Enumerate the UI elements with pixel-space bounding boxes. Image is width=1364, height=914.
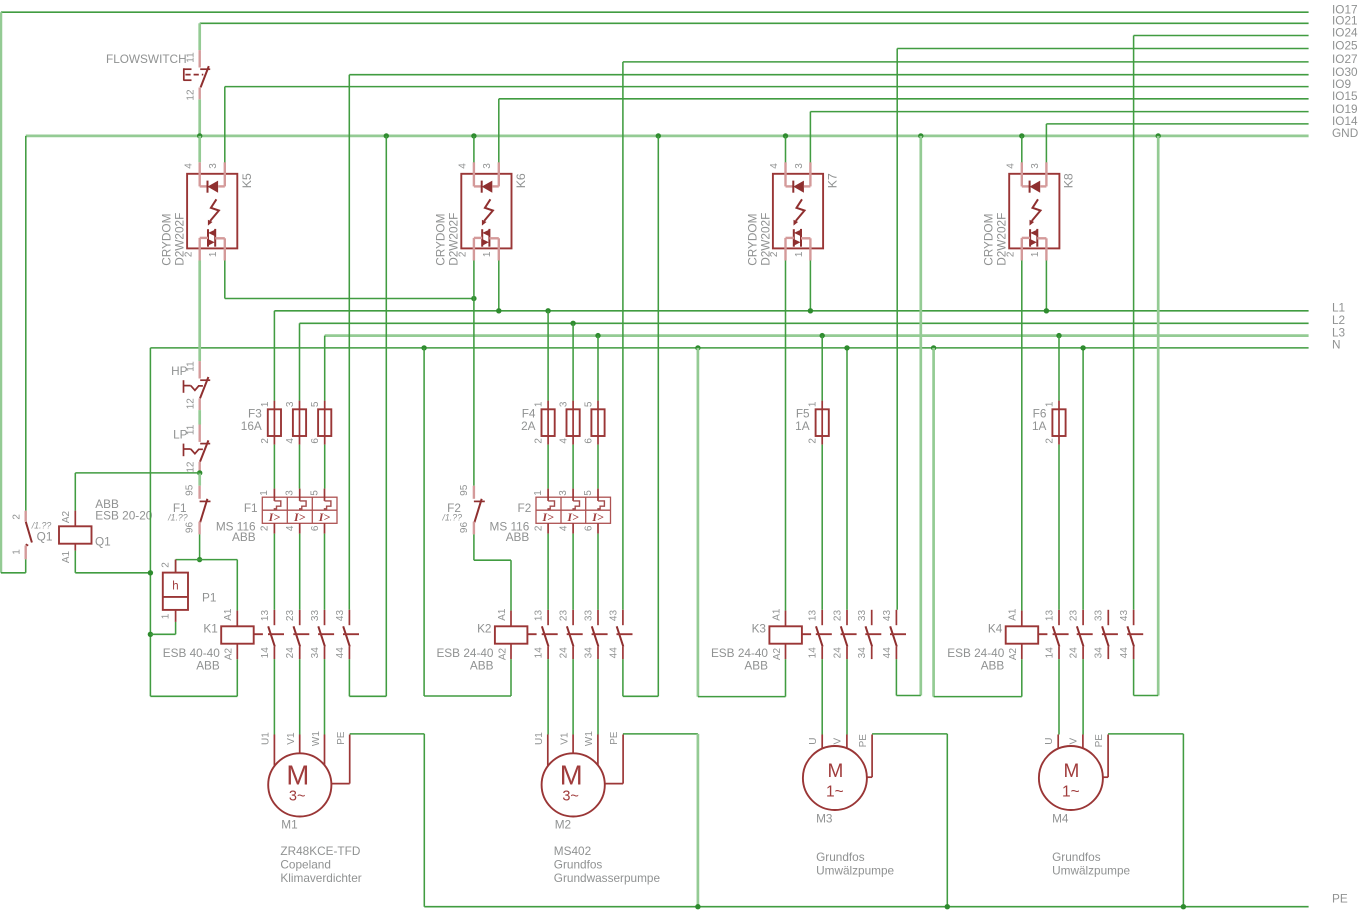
svg-text:HP: HP xyxy=(171,364,188,378)
svg-text:F1: F1 xyxy=(244,501,258,515)
svg-text:U: U xyxy=(808,738,819,745)
pin PE of M3 xyxy=(871,735,873,778)
pin A1 of Q1 xyxy=(74,544,76,551)
svg-text:6: 6 xyxy=(310,525,321,531)
svg-text:44: 44 xyxy=(335,647,346,659)
solid-state relay K8 CRYDOM D2W202F xyxy=(982,162,1076,265)
pin 95 of F2 xyxy=(473,486,475,499)
svg-text:A1: A1 xyxy=(771,608,782,621)
contact 33-34 of K2 xyxy=(583,610,607,660)
svg-text:13: 13 xyxy=(808,610,819,622)
svg-text:M: M xyxy=(827,761,843,782)
triac inside K7 xyxy=(793,229,795,247)
pin 44 of K4 xyxy=(1133,647,1135,660)
svg-text:A1: A1 xyxy=(1008,608,1019,621)
wire breaker to contactor contact xyxy=(597,534,599,610)
pin 12 of FLOWSWITCH xyxy=(198,88,200,100)
pin 24 of K2 xyxy=(572,647,574,660)
pin 3 xyxy=(299,401,301,410)
svg-text:CRYDOM: CRYDOM xyxy=(160,214,174,266)
svg-text:5: 5 xyxy=(584,401,595,407)
svg-text:Umwälzpumpe: Umwälzpumpe xyxy=(816,864,894,878)
fuse F4 pole 5-6 xyxy=(584,401,605,445)
contact arm 13-14 of K3 xyxy=(816,626,823,646)
wire GND to K5 pin4 xyxy=(198,136,201,162)
wire K7 pin1 to L1 xyxy=(809,261,811,311)
contact arm 23-24 of K4 xyxy=(1077,626,1084,646)
wire K7 pin2 down to K3 coil A1 xyxy=(785,261,787,611)
wire breaker to contactor contact xyxy=(299,534,301,610)
wire M2 PE elbow xyxy=(623,733,698,735)
svg-text:1~: 1~ xyxy=(826,783,844,800)
svg-text:16A: 16A xyxy=(241,419,262,433)
wire M1 PE riser xyxy=(423,734,425,907)
wire N drop for K2 coil xyxy=(423,348,425,696)
wire Q1 A2 up xyxy=(74,473,76,511)
fuse F4 pole 1-2 xyxy=(534,401,555,445)
svg-text:2: 2 xyxy=(12,514,23,520)
svg-text:5: 5 xyxy=(310,401,321,407)
svg-text:Grundfos: Grundfos xyxy=(1052,850,1101,864)
svg-text:IO24: IO24 xyxy=(1332,26,1358,40)
svg-text:K5: K5 xyxy=(240,173,254,188)
wire net L1 xyxy=(274,310,1308,312)
wire flowswitch pin12 to GND xyxy=(198,99,201,136)
pin 11 of FLOWSWITCH xyxy=(198,50,200,67)
contact arm 33-34 of K2 xyxy=(592,626,599,646)
contact arm 23-24 of K2 xyxy=(567,626,574,646)
contact arm of F2 xyxy=(474,500,485,502)
svg-text:PE: PE xyxy=(609,731,620,745)
pin 2 of K7 xyxy=(786,237,794,239)
contact 33-34 of K4 xyxy=(1094,610,1118,660)
pin A2 of K4 xyxy=(1021,644,1023,660)
pin 24 of K3 xyxy=(846,647,848,660)
svg-text:34: 34 xyxy=(1094,647,1105,659)
wire net IO21 xyxy=(200,22,1309,24)
wire K8 pin2 down to K4 coil A1 xyxy=(1021,261,1023,611)
linkage stub of K2 xyxy=(527,633,536,635)
svg-text:33: 33 xyxy=(583,610,594,622)
pin 23 of K3 xyxy=(846,610,848,625)
pin 2 of P1 xyxy=(175,560,177,573)
svg-text:K1: K1 xyxy=(203,621,217,635)
opto arrow inside K5 xyxy=(210,199,219,221)
svg-text:FLOWSWITCH: FLOWSWITCH xyxy=(106,52,187,66)
pin 96 of F1 xyxy=(198,522,200,535)
junction GND / K6 pin4 xyxy=(471,133,476,138)
svg-text:K8: K8 xyxy=(1061,173,1075,188)
pin 1 of K8 xyxy=(1037,237,1046,239)
svg-text:23: 23 xyxy=(559,610,570,622)
wire K2 contact 44 down xyxy=(622,659,624,696)
svg-text:1~: 1~ xyxy=(1062,783,1080,800)
svg-text:5: 5 xyxy=(309,490,320,496)
pin 14 of K4 xyxy=(1058,647,1060,660)
svg-text:3~: 3~ xyxy=(289,789,306,805)
pole 3-4 of F2 xyxy=(558,489,580,534)
wire P1 pin1 up xyxy=(175,622,177,634)
svg-text:I>: I> xyxy=(293,510,306,524)
pin 43 of K2 xyxy=(622,610,624,625)
pin 13 of K4 xyxy=(1058,610,1060,625)
wire breaker to contactor contact xyxy=(273,534,275,610)
wire IO17 to Q1 aux pin1 xyxy=(1,572,26,574)
pin U of M3 xyxy=(821,735,823,749)
wire GND to K7 pin4 xyxy=(785,136,787,174)
svg-text:GND: GND xyxy=(1332,126,1358,140)
svg-text:23: 23 xyxy=(285,610,296,622)
wire fuse to motor breaker xyxy=(597,445,599,489)
contact 33-34 of K1 xyxy=(310,610,334,660)
wire K5 pin1 to K6 pin2 net xyxy=(225,298,474,300)
contact arm 13-14 of K4 xyxy=(1053,626,1060,646)
svg-text:ZR48KCE-TFD: ZR48KCE-TFD xyxy=(280,844,360,858)
wire K4 contact 14 to motor M4 xyxy=(1058,659,1060,734)
svg-text:1: 1 xyxy=(259,490,270,496)
svg-text:ABB: ABB xyxy=(744,659,768,673)
wire K8 pin1 to L1 xyxy=(1045,261,1047,311)
solid-state relay K6 CRYDOM D2W202F xyxy=(434,162,528,265)
wire net IO14 xyxy=(1046,123,1308,125)
pole 3-4 of F1 xyxy=(285,489,307,534)
auxiliary contact Q1 1-2 xyxy=(12,511,53,560)
contact 23-24 of K4 xyxy=(1069,610,1093,660)
wire down to K2 coil A1 xyxy=(510,560,512,610)
pin 4 of K5 xyxy=(198,162,200,186)
svg-text:6: 6 xyxy=(310,438,321,444)
pole 1-2 of F1 xyxy=(259,489,281,534)
pin 1 xyxy=(273,401,275,410)
svg-text:1: 1 xyxy=(794,251,805,257)
pin 33 of K4 xyxy=(1107,610,1109,625)
pin U of M4 xyxy=(1057,735,1059,749)
wire K6 pin1 to L1 xyxy=(498,261,500,311)
wire net IO17 xyxy=(1,11,1309,13)
svg-text:96: 96 xyxy=(459,522,470,534)
flow actuator of FLOWSWITCH xyxy=(183,68,185,80)
wire net GND horizontal rail xyxy=(26,135,1309,138)
contact 43-44 of K3 xyxy=(882,610,906,660)
svg-text:ABB: ABB xyxy=(196,659,220,673)
wire N to K2 coil A2 xyxy=(424,695,511,697)
wire net N xyxy=(150,347,1308,349)
svg-text:34: 34 xyxy=(310,647,321,659)
wire contactor contact to motor xyxy=(273,659,275,734)
svg-text:V1: V1 xyxy=(559,732,570,745)
contact arm of LP xyxy=(200,443,210,445)
wire net IO15 xyxy=(499,98,1309,100)
contactor coil K3 ESB 24-40 ABB xyxy=(711,608,811,673)
LED diode inside K8 xyxy=(1029,181,1031,193)
overload auxiliary contact F2 95-96 xyxy=(441,484,484,534)
solid-state relay K7 CRYDOM D2W202F xyxy=(745,162,839,265)
wire K4 contact 24 to motor M4 xyxy=(1082,659,1084,734)
pin PE of M1 xyxy=(349,735,351,784)
svg-text:3: 3 xyxy=(794,163,805,169)
pin 95 of F1 xyxy=(198,486,200,499)
pin 1 of K5 xyxy=(215,237,225,239)
pin U1 of M1 xyxy=(273,735,275,766)
wire Q1 A1 to N drop xyxy=(75,572,150,574)
pin 34 of K1 xyxy=(324,647,326,660)
svg-text:I>: I> xyxy=(268,510,281,524)
svg-text:2: 2 xyxy=(161,562,172,568)
pin V of M4 xyxy=(1082,735,1084,749)
pin 4 xyxy=(572,436,574,445)
contact 13-14 of K2 xyxy=(534,610,558,660)
svg-text:Grundfos: Grundfos xyxy=(816,850,865,864)
pin 14 of K2 xyxy=(547,647,549,660)
svg-text:4: 4 xyxy=(559,438,570,444)
wire IO30 drop to K1 contact 43 xyxy=(348,75,350,610)
pin PE of M2 xyxy=(622,735,624,784)
pin 5 xyxy=(324,401,326,410)
svg-text:A2: A2 xyxy=(1008,647,1019,660)
svg-text:6: 6 xyxy=(584,438,595,444)
junction L3 / F5 pin1 xyxy=(820,333,825,338)
pin PE of M4 xyxy=(1107,735,1109,778)
svg-text:M: M xyxy=(560,759,583,790)
svg-text:ABB: ABB xyxy=(506,530,530,544)
wire net IO24 xyxy=(1134,35,1309,37)
wire fuse to motor breaker xyxy=(547,445,549,489)
svg-text:1A: 1A xyxy=(1032,419,1047,433)
wire F5 to K3 contact 13 xyxy=(821,445,823,610)
pin U1 of M2 xyxy=(547,735,549,766)
svg-text:5: 5 xyxy=(583,490,594,496)
svg-text:P1: P1 xyxy=(202,590,216,604)
junction K6 pin2 / control feed xyxy=(471,296,476,301)
contact 13-14 of K1 xyxy=(260,610,284,660)
LED diode inside K6 xyxy=(481,181,483,193)
wire fuse to motor breaker xyxy=(273,445,275,489)
junction GND / flowswitch / K5 pin4 xyxy=(197,133,202,138)
svg-text:ESB 20-20: ESB 20-20 xyxy=(95,509,152,523)
wire K4 contact 44 down xyxy=(1133,659,1135,695)
junction GND / K3 feedback return xyxy=(918,133,923,138)
svg-text:1: 1 xyxy=(12,549,23,555)
svg-text:1A: 1A xyxy=(795,419,810,433)
svg-text:ABB: ABB xyxy=(232,530,256,544)
junction GND / K7 pin4 xyxy=(783,133,788,138)
wire breaker to contactor contact xyxy=(547,534,549,610)
wire GND to K6 pin4 xyxy=(473,136,475,174)
svg-text:2: 2 xyxy=(808,438,819,444)
wire M1 PE elbow xyxy=(350,733,425,735)
svg-text:95: 95 xyxy=(185,484,196,496)
wire N to K4 contact 23 xyxy=(1082,348,1084,610)
wire K3 A2 down xyxy=(785,659,787,696)
pin 33 of K3 xyxy=(871,610,873,625)
wire IO19 drop to K7 pin3 xyxy=(809,112,811,174)
pin 96 of F2 xyxy=(473,522,475,535)
svg-text:Q1: Q1 xyxy=(95,534,111,548)
svg-text:3~: 3~ xyxy=(562,789,579,805)
svg-text:13: 13 xyxy=(1044,610,1055,622)
pin 3 of K7 xyxy=(804,185,811,187)
contact 13-14 of K3 xyxy=(808,610,832,660)
svg-text:44: 44 xyxy=(882,647,893,659)
svg-text:33: 33 xyxy=(310,610,321,622)
pin 4 of K6 xyxy=(473,162,475,186)
wire net PE bottom rail xyxy=(424,906,1308,908)
svg-text:Grundwasserpumpe: Grundwasserpumpe xyxy=(554,871,661,885)
svg-text:K3: K3 xyxy=(752,621,767,635)
pin 2 of K6 xyxy=(474,237,482,239)
pin 2 xyxy=(547,436,549,445)
svg-text:14: 14 xyxy=(1044,647,1055,659)
svg-text:/1.??: /1.?? xyxy=(441,513,462,523)
svg-text:3: 3 xyxy=(285,401,296,407)
wire contactor contact to motor xyxy=(597,659,599,734)
svg-text:2: 2 xyxy=(260,525,271,531)
svg-text:95: 95 xyxy=(459,484,470,496)
pin 14 of K3 xyxy=(821,647,823,660)
pin 2 xyxy=(1058,436,1060,445)
svg-text:U1: U1 xyxy=(261,732,272,745)
svg-text:44: 44 xyxy=(1119,647,1130,659)
triac inside K8 xyxy=(1029,229,1031,247)
svg-text:24: 24 xyxy=(559,647,570,659)
pin A2 of K2 xyxy=(510,644,512,660)
pin 34 of K4 xyxy=(1107,647,1109,660)
svg-text:34: 34 xyxy=(583,647,594,659)
motor breaker F1 MS 116 ABB xyxy=(216,489,337,544)
junction N / K4 coil return xyxy=(931,345,936,350)
pin 34 of K3 xyxy=(871,647,873,660)
contact 23-24 of K2 xyxy=(559,610,583,660)
junction N / K2 coil return xyxy=(421,345,426,350)
wire IO25 drop to K3 contact 43 xyxy=(896,49,898,610)
svg-text:1: 1 xyxy=(533,490,544,496)
junction L1 / K6 pin1 xyxy=(496,308,501,313)
svg-text:43: 43 xyxy=(608,610,619,622)
junction N / K3 coil return xyxy=(695,345,700,350)
wire IO21 drop to flowswitch pin11 xyxy=(198,23,201,50)
pin A1 of K1 xyxy=(236,611,238,627)
svg-text:Klimaverdichter: Klimaverdichter xyxy=(280,871,361,885)
pin A2 of K1 xyxy=(236,644,238,660)
svg-text:14: 14 xyxy=(260,647,271,659)
wire K5 pin1 down xyxy=(224,261,226,299)
svg-text:3: 3 xyxy=(208,163,219,169)
pin 2 xyxy=(821,436,823,445)
junction N / K3 contact 23 xyxy=(844,345,849,350)
wire N to K4 coil A2 xyxy=(934,696,1022,698)
pin 3 of K5 xyxy=(218,185,225,187)
contact 43-44 of K1 xyxy=(335,610,359,660)
contact arm 43-44 of K1 xyxy=(343,626,350,646)
wire L2 to F4 pin3 xyxy=(572,323,574,400)
junction N / K4 contact 23 xyxy=(1080,345,1085,350)
svg-text:4: 4 xyxy=(183,163,194,169)
wire Q1 A2 to LP/F1 node xyxy=(75,472,199,474)
junction GND / K1 feedback return xyxy=(384,133,389,138)
contact arm of HP xyxy=(200,379,210,381)
pin 1 of Q1 aux xyxy=(26,544,29,545)
wire breaker to contactor contact xyxy=(572,534,574,610)
junction PE / M3 riser xyxy=(945,904,950,909)
pin 24 of K1 xyxy=(299,647,301,660)
wire L2 to F3 pin3 xyxy=(299,323,301,400)
svg-text:A1: A1 xyxy=(223,608,234,621)
svg-text:33: 33 xyxy=(1094,610,1105,622)
pin 43 of K3 xyxy=(895,610,897,625)
pin A2 of Q1 xyxy=(74,511,76,527)
svg-text:A2: A2 xyxy=(772,647,783,660)
wire contactor contact to motor xyxy=(547,659,549,734)
svg-text:12: 12 xyxy=(185,89,196,101)
wire N drop for K4 coil xyxy=(932,348,935,697)
svg-text:h: h xyxy=(172,581,178,593)
svg-text:D2W202F: D2W202F xyxy=(758,213,772,266)
fuse F3 pole 3-4 xyxy=(285,401,306,445)
wire LP pin12 to F1 aux pin95 xyxy=(198,473,201,485)
wire K4 contact 44 elbow xyxy=(1134,695,1159,697)
overload auxiliary contact F1 95-96 xyxy=(167,484,210,534)
pin W1 of M1 xyxy=(324,735,326,766)
wire IO27 drop to K2 contact 43 xyxy=(622,62,624,610)
junction N / P1 pin1 xyxy=(148,632,153,637)
svg-text:V: V xyxy=(1069,738,1080,745)
svg-text:M1: M1 xyxy=(281,818,297,832)
contact arm 33-34 of K4 xyxy=(1102,626,1109,646)
contactor coil K2 ESB 24-40 ABB xyxy=(436,608,536,673)
wire F2 aux to K2 coil A1 elbow xyxy=(474,559,511,561)
pin 23 of K1 xyxy=(299,610,301,625)
triac inside K5 xyxy=(207,229,209,247)
pin A1 of K2 xyxy=(510,611,512,627)
svg-text:K2: K2 xyxy=(477,621,491,635)
pin 4 xyxy=(299,436,301,445)
pin A2 of K3 xyxy=(785,644,787,660)
pin V of M3 xyxy=(846,735,848,749)
wire GND return from K1 contact 44 xyxy=(385,136,387,696)
wire K6 pin2 to F2 aux pin95 xyxy=(473,299,475,486)
pin 34 of K2 xyxy=(597,647,599,660)
fuse F3 pole 5-6 xyxy=(310,401,331,445)
svg-text:2: 2 xyxy=(534,438,545,444)
junction GND / K2 feedback return xyxy=(656,133,661,138)
pressure switch HP xyxy=(171,361,210,410)
svg-text:I>: I> xyxy=(566,510,579,524)
pin 1 of P1 xyxy=(175,610,177,622)
pin 44 of K1 xyxy=(348,647,350,660)
wire fuse to motor breaker xyxy=(324,445,326,489)
contact 33-34 of K3 xyxy=(857,610,881,660)
svg-text:14: 14 xyxy=(808,647,819,659)
svg-text:I>: I> xyxy=(591,510,604,524)
pin 4 of K8 xyxy=(1021,162,1023,186)
opto arrow inside K8 xyxy=(1032,199,1041,221)
contactor coil K1 ESB 40-40 ABB xyxy=(163,608,263,673)
pin 3 of K8 xyxy=(1040,185,1046,187)
pin 11 of LP xyxy=(198,425,200,442)
wire M3 PE riser xyxy=(946,734,948,907)
svg-text:1: 1 xyxy=(482,251,493,257)
svg-text:PE: PE xyxy=(1094,734,1105,748)
pin 12 of LP xyxy=(198,462,200,474)
pressure switch LP xyxy=(173,424,210,473)
junction L2 / F4 pin3 xyxy=(570,321,575,326)
svg-text:43: 43 xyxy=(335,610,346,622)
wire K1 contact 44 elbow xyxy=(349,695,386,697)
wire net L3 xyxy=(325,334,1309,337)
svg-text:43: 43 xyxy=(1119,610,1130,622)
pressure actuator of HP xyxy=(183,380,185,393)
svg-text:CRYDOM: CRYDOM xyxy=(745,214,759,266)
